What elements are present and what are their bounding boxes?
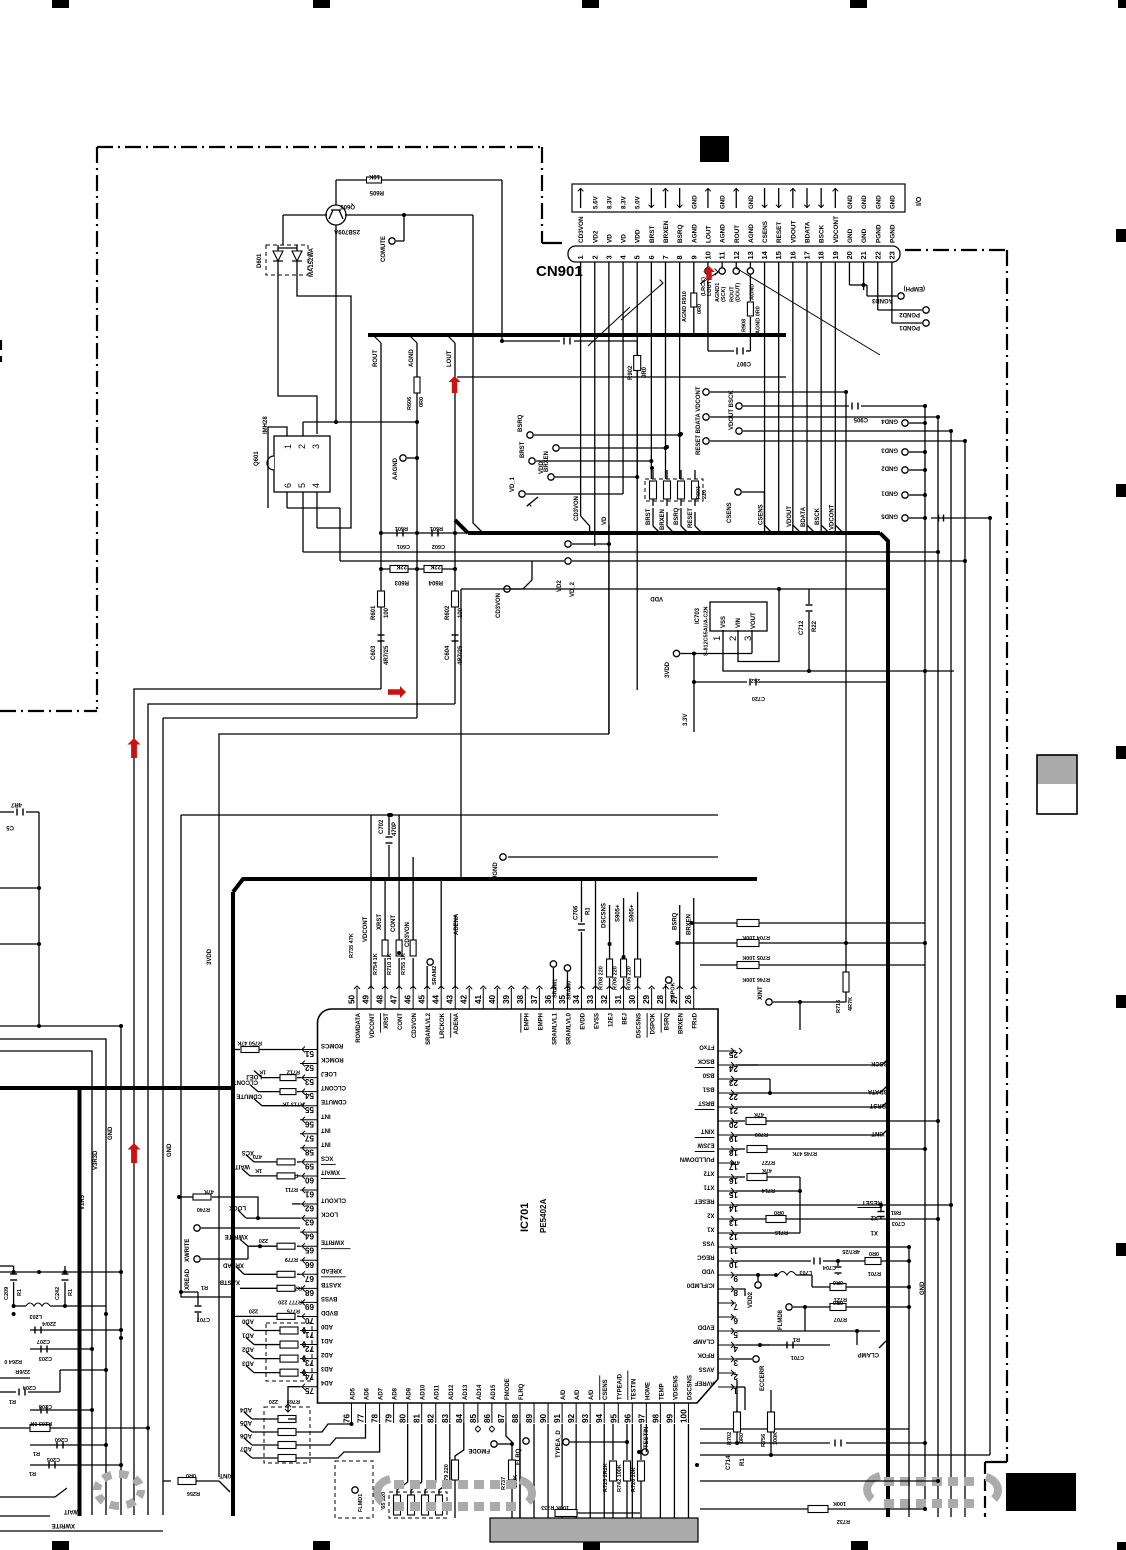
svg-text:XRST: XRST (377, 914, 383, 930)
capacitor C712 R22 (808, 589, 810, 604)
svg-text:CONT: CONT (391, 915, 397, 932)
svg-text:LOEJ: LOEJ (246, 1073, 262, 1079)
svg-text:XWRITE: XWRITE (321, 1239, 344, 1245)
capacitor C905 (851, 403, 853, 410)
svg-text:VDOUT BSCK: VDOUT BSCK (729, 390, 735, 430)
svg-text:VSS: VSS (721, 616, 727, 628)
svg-text:220: 220 (702, 490, 708, 499)
svg-text:81: 81 (413, 1413, 422, 1423)
svg-text:SRAMLVL2: SRAMLVL2 (426, 1012, 432, 1045)
svg-text:EJSW: EJSW (697, 1142, 714, 1148)
svg-text:ADENA: ADENA (454, 1012, 460, 1034)
svg-text:XT1: XT1 (703, 1184, 715, 1190)
thick bus above IC701 (233, 879, 757, 892)
svg-text:GND: GND (108, 1126, 114, 1140)
svg-text:94: 94 (595, 1413, 604, 1423)
svg-text:XRST: XRST (384, 1013, 390, 1029)
slanted leads to bus (764, 262, 766, 533)
svg-text:SRAM1: SRAM1 (552, 979, 558, 998)
svg-text:93: 93 (581, 1413, 590, 1423)
svg-text:GND2: GND2 (881, 465, 898, 471)
svg-text:D601: D601 (257, 253, 263, 268)
IC IC701 PE5402A (318, 1009, 719, 1403)
svg-text:45: 45 (418, 994, 427, 1004)
grey highlight marks bottom right (884, 1477, 894, 1486)
long wires from Q601 to right (303, 551, 938, 553)
svg-text:86: 86 (483, 1413, 492, 1423)
svg-text:50: 50 (348, 994, 357, 1004)
svg-text:92: 92 (567, 1413, 576, 1423)
svg-text:C203: C203 (39, 1355, 52, 1361)
svg-text:91: 91 (553, 1413, 562, 1423)
svg-text:BSRQ: BSRQ (673, 912, 679, 930)
capacitor C704 (837, 1261, 839, 1266)
svg-text:0R0: 0R0 (869, 1250, 879, 1256)
svg-text:220/4: 220/4 (41, 1320, 56, 1326)
capacitor C242 R1 (64, 1266, 66, 1272)
svg-text:VD_1: VD_1 (510, 476, 516, 492)
terminal VD2 VD_2 (565, 541, 571, 547)
left edge feeds (0, 1026, 121, 1515)
svg-text:AD3: AD3 (241, 1360, 254, 1366)
svg-text:R256: R256 (187, 1490, 200, 1496)
svg-text:CN901: CN901 (536, 263, 583, 280)
svg-text:X2: X2 (706, 1212, 714, 1218)
svg-text:LOUT: LOUT (447, 350, 453, 367)
svg-text:31: 31 (614, 994, 623, 1004)
ADENA wire (454, 930, 456, 988)
svg-text:FLMD8: FLMD8 (778, 1309, 784, 1330)
capacitor C205 (30, 1464, 121, 1466)
svg-text:AGND: AGND (409, 349, 415, 367)
svg-text:17: 17 (803, 251, 812, 259)
svg-text:AD6: AD6 (239, 1432, 252, 1438)
capacitor C5xx 4R7 left edge (0, 811, 14, 813)
svg-text:VD2: VD2 (592, 230, 599, 243)
svg-text:R750 47K: R750 47K (237, 1040, 262, 1046)
terminal AGND3 (EMPH) (898, 293, 904, 299)
terminal FLRQ (523, 1438, 529, 1444)
svg-text:100K: 100K (833, 1500, 846, 1506)
capacitors C601 C602 (381, 532, 468, 534)
svg-text:CLCONT: CLCONT (321, 1084, 346, 1090)
svg-text:0R0: 0R0 (186, 1472, 196, 1478)
terminal VDOUT (736, 428, 742, 434)
svg-text:CD3VON: CD3VON (412, 1013, 418, 1038)
svg-text:38: 38 (516, 994, 525, 1004)
svg-text:66: 66 (304, 1260, 314, 1269)
svg-text:VD: VD (606, 234, 613, 243)
wires around Q601 (302, 422, 304, 436)
svg-text:XINT: XINT (700, 1128, 714, 1134)
svg-text:CSENS: CSENS (603, 1379, 609, 1400)
svg-text:VDCONT: VDCONT (829, 504, 835, 530)
svg-text:XWRITE: XWRITE (52, 1522, 75, 1528)
svg-text:470P: 470P (392, 822, 398, 836)
svg-text:BSRQ: BSRQ (677, 225, 684, 243)
svg-text:76: 76 (343, 1413, 352, 1423)
terminal CSENS (735, 489, 741, 495)
svg-text:BS1: BS1 (702, 1086, 714, 1092)
junction dots bottom (695, 1463, 699, 1467)
svg-text:BRST: BRST (698, 1100, 715, 1106)
svg-text:AGND: AGND (720, 224, 727, 243)
grey highlight marks bottom center (394, 1480, 404, 1489)
svg-text:R705 220: R705 220 (627, 966, 633, 990)
svg-text:LOCK: LOCK (228, 1204, 246, 1210)
svg-text:R263 0R: R263 0R (30, 1420, 52, 1426)
svg-text:(EMPH): (EMPH) (904, 285, 925, 291)
svg-text:AGND R910: AGND R910 (682, 291, 688, 322)
svg-text:BDATA: BDATA (801, 506, 807, 527)
svg-text:C707: C707 (197, 1316, 210, 1322)
pin9 VDD + L703 C704 (736, 1274, 778, 1276)
svg-text:R746 100K: R746 100K (742, 976, 770, 982)
svg-text:FTxO: FTxO (699, 1044, 715, 1050)
svg-text:RESET: RESET (862, 1199, 882, 1205)
svg-text:S905+: S905+ (616, 904, 622, 922)
svg-text:R779: R779 (285, 1256, 298, 1262)
svg-text:DSCSNS: DSCSNS (602, 903, 608, 928)
svg-text:GND3: GND3 (881, 447, 898, 453)
svg-text:XASTB: XASTB (219, 1278, 240, 1284)
resistor R750 47K (233, 1049, 240, 1051)
svg-text:33: 33 (586, 994, 595, 1004)
svg-text:AD14: AD14 (477, 1384, 483, 1400)
svg-text:37: 37 (530, 994, 539, 1004)
svg-text:C706: C706 (573, 905, 579, 920)
svg-text:R709: R709 (755, 1131, 768, 1137)
svg-text:R264 0: R264 0 (4, 1358, 22, 1364)
svg-text:LOCK: LOCK (320, 1211, 338, 1217)
svg-text:EVDD: EVDD (580, 1012, 586, 1029)
svg-text:EMPH: EMPH (538, 1013, 544, 1030)
svg-text:72: 72 (304, 1344, 314, 1353)
svg-text:R702: R702 (727, 1432, 733, 1445)
svg-text:3: 3 (604, 255, 613, 259)
svg-text:56: 56 (304, 1119, 314, 1128)
resistor R605 10K (367, 177, 382, 183)
svg-text:X1: X1 (706, 1226, 714, 1232)
svg-text:100K: 100K (773, 1432, 779, 1445)
pin11 VSS wire (736, 1246, 909, 1248)
svg-text:68: 68 (304, 1288, 314, 1297)
svg-text:73: 73 (304, 1358, 314, 1367)
svg-text:XREAD: XREAD (320, 1267, 342, 1273)
svg-text:82: 82 (427, 1413, 436, 1423)
svg-text:47: 47 (390, 994, 399, 1004)
svg-text:GND: GND (875, 195, 882, 209)
svg-text:RFOK: RFOK (697, 1352, 715, 1358)
pin75 AD4 corner (288, 1387, 300, 1402)
svg-text:20: 20 (845, 251, 854, 259)
svg-text:C601: C601 (397, 543, 410, 549)
pin8 IC/FLMD0 wire (736, 1289, 745, 1296)
svg-text:VOUT: VOUT (751, 612, 757, 629)
svg-text:VD: VD (621, 234, 628, 243)
bottom right wires (736, 1386, 745, 1388)
svg-text:C703: C703 (892, 1220, 905, 1226)
svg-text:AD8: AD8 (393, 1387, 399, 1400)
svg-text:BRST: BRST (649, 226, 656, 243)
pin10 REGC R701 0R0 (736, 1260, 811, 1262)
svg-text:PULLDOWN: PULLDOWN (680, 1156, 715, 1162)
svg-text:69: 69 (304, 1302, 314, 1311)
svg-text:39: 39 (502, 994, 511, 1004)
svg-text:VDD: VDD (635, 229, 642, 243)
svg-text:R1: R1 (68, 1289, 74, 1296)
svg-text:R712: R712 (287, 1069, 300, 1075)
svg-text:BS0: BS0 (702, 1072, 714, 1078)
red arrow left bundle (128, 738, 141, 758)
thick bus line 2 (468, 531, 880, 535)
svg-text:52: 52 (304, 1063, 314, 1072)
svg-text:C714: C714 (726, 1455, 732, 1470)
red arrow mid-left (388, 686, 406, 698)
capacitor C260 (30, 1444, 106, 1446)
svg-text:C204: C204 (22, 1384, 36, 1390)
capacitor C720 (693, 654, 695, 683)
dashed group resistors R901 (645, 479, 703, 501)
svg-text:RESET: RESET (776, 222, 783, 243)
svg-text:GND: GND (847, 228, 854, 243)
svg-text:AD5: AD5 (351, 1387, 357, 1400)
capacitor C707 R1 (179, 1290, 183, 1294)
svg-text:46: 46 (404, 994, 413, 1004)
svg-text:XCS: XCS (242, 1149, 254, 1155)
svg-text:AD11: AD11 (435, 1384, 441, 1400)
svg-text:DSCSNS: DSCSNS (687, 1375, 693, 1400)
svg-text:0R0: 0R0 (774, 1209, 784, 1215)
regulator IC703 S-812C55AUA-C2N (710, 602, 767, 631)
svg-text:40: 40 (488, 994, 497, 1004)
resistors R725 R742 R726 (612, 1424, 614, 1460)
svg-text:DSCSNS: DSCSNS (637, 1013, 643, 1038)
capacitor C714 R1 (700, 1442, 830, 1444)
svg-text:79: 79 (385, 1413, 394, 1423)
svg-text:VDCONT: VDCONT (833, 216, 840, 243)
resistor R727 pin18 (736, 1148, 745, 1150)
svg-text:22K: 22K (395, 563, 407, 569)
svg-text:30: 30 (628, 994, 637, 1004)
svg-text:BRST: BRST (646, 508, 652, 525)
svg-text:VDCONT: VDCONT (363, 916, 369, 942)
svg-text:CD3VON: CD3VON (574, 496, 580, 521)
capacitor C207 220/4 (30, 1329, 60, 1331)
3VDD terminal (673, 650, 679, 656)
svg-text:R1: R1 (740, 1458, 746, 1466)
svg-text:CSENS: CSENS (727, 502, 733, 523)
svg-text:C5: C5 (6, 824, 14, 830)
svg-text:X1: X1 (870, 1229, 878, 1235)
pin62 CLKOUT stub (292, 1203, 300, 1205)
pin14 RESET long wire (736, 1204, 951, 1206)
svg-text:220: 220 (249, 1307, 258, 1313)
svg-text:22K: 22K (429, 563, 441, 569)
svg-text:AVSS: AVSS (699, 1366, 715, 1372)
thick bus line (audio) (368, 333, 786, 337)
svg-text:(DOUT): (DOUT) (735, 283, 741, 302)
svg-text:CD3VON: CD3VON (578, 216, 585, 243)
svg-text:AD7: AD7 (239, 1445, 252, 1451)
resistor R707 0R0 (830, 1304, 846, 1311)
svg-text:3VDD: 3VDD (207, 948, 213, 965)
connector CN901 (572, 184, 905, 212)
svg-text:RESET: RESET (688, 508, 694, 528)
resistor R737 100K (509, 1460, 516, 1480)
svg-text:99: 99 (665, 1413, 674, 1423)
svg-text:WAIT: WAIT (64, 1508, 79, 1514)
svg-text:R1: R1 (201, 1284, 208, 1290)
svg-text:5.6V: 5.6V (592, 195, 599, 209)
svg-text:13: 13 (746, 251, 755, 259)
svg-text:CLKOUT: CLKOUT (321, 1197, 346, 1203)
pin16 R714 47K (736, 1176, 745, 1178)
svg-text:97: 97 (637, 1413, 646, 1423)
svg-text:AD10: AD10 (421, 1384, 427, 1400)
svg-text:R745 47K: R745 47K (792, 1150, 817, 1156)
svg-text:R707: R707 (834, 1316, 847, 1322)
svg-text:48: 48 (376, 994, 385, 1004)
svg-text:R1: R1 (29, 1470, 36, 1476)
nested corner wires right (936, 550, 940, 554)
svg-text:R605: R605 (369, 189, 384, 195)
svg-text:EVSS: EVSS (595, 1013, 601, 1029)
wires pins to right bus (739, 1048, 742, 1054)
svg-text:88: 88 (511, 1413, 520, 1423)
svg-text:VDSENS: VDSENS (673, 1375, 679, 1400)
terminal CD3VON lower (504, 586, 510, 592)
svg-text:CSENS: CSENS (759, 504, 765, 525)
svg-text:TYPEA_D: TYPEA_D (556, 1430, 562, 1458)
svg-text:98: 98 (651, 1413, 660, 1423)
long vertical wires right (924, 406, 926, 1509)
svg-text:100K R733: 100K R733 (541, 1504, 569, 1510)
svg-text:C260: C260 (55, 1436, 68, 1442)
svg-text:BRXEN: BRXEN (660, 509, 666, 530)
bottom right horizontals (700, 1428, 909, 1430)
svg-text:R601: R601 (430, 525, 443, 531)
pin19 XINT wire (736, 1134, 882, 1136)
svg-text:95: 95 (609, 1413, 618, 1423)
svg-text:C701: C701 (791, 1354, 804, 1360)
svg-text:0R0: 0R0 (697, 304, 703, 314)
terminal FLMD8 (786, 1304, 792, 1310)
svg-text:AAGND: AAGND (393, 457, 399, 480)
svg-text:RESET BDATA VDCONT: RESET BDATA VDCONT (696, 386, 702, 455)
svg-text:SRAM2: SRAM2 (432, 966, 438, 985)
svg-text:SRAMLVL0: SRAMLVL0 (566, 1012, 572, 1045)
svg-text:C603: C603 (371, 645, 377, 660)
svg-text:R755 1K: R755 1K (401, 953, 407, 975)
svg-text:R1: R1 (9, 1398, 16, 1404)
svg-text:BRXEN: BRXEN (663, 220, 670, 243)
horizontal wire y=377 (457, 376, 786, 378)
dual diode D601 MA152WA (266, 245, 308, 275)
border dash-dot right side (905, 249, 1007, 251)
svg-text:CLCONT: CLCONT (233, 1079, 258, 1085)
svg-text:12EJ: 12EJ (609, 1013, 615, 1027)
svg-text:18: 18 (817, 251, 826, 259)
svg-text:5: 5 (297, 483, 307, 488)
svg-text:5: 5 (633, 255, 642, 259)
terminal XWRITE (194, 1225, 200, 1231)
svg-text:AGND3: AGND3 (871, 297, 893, 303)
terminals PGND2 PGND1 (877, 262, 879, 310)
capacitor C706 (580, 932, 582, 988)
svg-text:VDD: VDD (701, 1268, 714, 1274)
grey dashed highlight bottom-left (139, 1490, 141, 1497)
svg-text:SRAMLVL1: SRAMLVL1 (552, 1012, 558, 1045)
svg-text:14: 14 (760, 250, 769, 259)
svg-text:EMPH: EMPH (524, 1013, 530, 1030)
resistor R778 220 pin67 (297, 1273, 300, 1275)
svg-text:MA152WA: MA152WA (309, 247, 315, 277)
svg-text:AGND: AGND (748, 224, 755, 243)
svg-text:64: 64 (304, 1232, 314, 1241)
svg-text:AD13: AD13 (463, 1384, 469, 1400)
svg-text:ROUT: ROUT (373, 350, 379, 367)
svg-text:49: 49 (362, 994, 371, 1004)
svg-text:C207: C207 (37, 1338, 50, 1344)
svg-text:FLMD1: FLMD1 (358, 1494, 364, 1512)
svg-text:32: 32 (600, 994, 609, 1004)
svg-text:TESTIN: TESTIN (644, 1427, 650, 1448)
svg-text:XASTB: XASTB (320, 1281, 341, 1287)
svg-text:VDD: VDD (650, 595, 663, 601)
svg-text:67: 67 (304, 1274, 314, 1283)
ROUT AGND LOUT bus stubs (373, 335, 381, 343)
svg-text:71: 71 (304, 1330, 314, 1339)
svg-text:77: 77 (357, 1413, 366, 1423)
svg-text:ROMDATA: ROMDATA (356, 1012, 362, 1042)
VDD wire (461, 588, 888, 590)
svg-text:262: 262 (751, 677, 760, 683)
svg-text:BDATA: BDATA (805, 221, 812, 243)
svg-text:FMODE: FMODE (505, 1378, 511, 1400)
svg-text:47K: 47K (754, 1111, 764, 1117)
svg-text:IC701: IC701 (519, 1203, 531, 1232)
svg-text:78: 78 (371, 1413, 380, 1423)
svg-text:PGND: PGND (889, 224, 896, 243)
svg-text:R735 47K: R735 47K (349, 933, 355, 958)
wire bundle corners (134, 689, 381, 1515)
red arrow near CN901 pin10 (703, 266, 715, 280)
svg-text:74: 74 (304, 1372, 314, 1381)
svg-text:0R0: 0R0 (833, 1279, 843, 1285)
svg-text:C205: C205 (47, 1456, 60, 1462)
svg-text:R601: R601 (395, 525, 408, 531)
capacitor C204 22/6R (0, 1377, 30, 1379)
terminal AAGND (400, 455, 406, 461)
svg-text:12: 12 (732, 251, 741, 259)
svg-text:1: 1 (283, 444, 293, 449)
svg-text:AD4: AD4 (320, 1379, 333, 1385)
terminal VDD2 (757, 1275, 759, 1281)
resistors R603 R604 22K (381, 568, 455, 570)
svg-text:PE5402A: PE5402A (539, 1199, 548, 1233)
black rectangle bottom right (1006, 1473, 1076, 1511)
resistor R740 47K (193, 1194, 211, 1200)
svg-text:VDD: VDD (539, 461, 545, 474)
svg-text:C702: C702 (379, 819, 385, 834)
svg-text:R775: R775 (287, 1307, 300, 1313)
svg-text:70: 70 (304, 1316, 314, 1325)
resistor R720 470 pin59 (297, 1161, 300, 1163)
terminals (LRCK)LOUT AGND1(SCK) ROUT(DOUT) below connector (707, 262, 709, 268)
resistor R709 47K pin20 (736, 1120, 745, 1122)
svg-text:47K: 47K (204, 1188, 214, 1194)
